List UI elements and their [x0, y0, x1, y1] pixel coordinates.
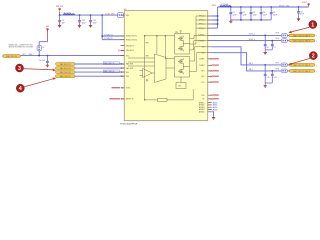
op-amp EA1 — [140, 69, 155, 78]
note text — [9, 43, 34, 48]
svg-text:AGND: AGND — [213, 108, 219, 111]
ground — [297, 18, 300, 21]
resistor RT internal — [145, 98, 194, 101]
pin names left — [126, 15, 137, 101]
transistor Q2 — [178, 45, 183, 51]
connector pad EN1 pill — [56, 63, 76, 66]
svg-text:SS2: SS2 — [126, 76, 129, 78]
svg-text:3: 3 — [18, 66, 21, 72]
inductor L2 — [220, 4, 231, 7]
connector pad FB2 pill — [289, 70, 315, 73]
svg-text:SS1: SS1 — [126, 72, 129, 74]
callout circle 4 — [16, 78, 56, 93]
internal ground ref — [146, 79, 148, 82]
capacitor C13 — [265, 71, 276, 83]
svg-text:J2: J2 — [42, 47, 44, 49]
svg-text:22uF: 22uF — [233, 14, 237, 16]
svg-text:22uF: 22uF — [273, 14, 277, 16]
svg-text:1 PVIN_V2: 1 PVIN_V2 — [104, 38, 112, 40]
connector pad EN2 pill — [56, 67, 76, 70]
svg-text:BP2: BP2 — [146, 55, 149, 57]
no-connect right BP2 — [211, 76, 219, 78]
svg-text:VOUT_1V0: VOUT_1V0 — [279, 5, 290, 7]
svg-text:1: 1 — [311, 23, 314, 29]
wire block1 internal — [183, 42, 189, 46]
svg-text:C13: C13 — [274, 77, 277, 79]
labels AGND cluster — [213, 101, 219, 111]
no-connect left SYNC — [112, 87, 124, 89]
node junctions FB rows — [264, 64, 273, 72]
power flag VOUT — [302, 2, 309, 7]
svg-text:VIN_HV: VIN_HV — [56, 6, 64, 8]
capacitor C1 — [229, 7, 236, 20]
svg-text:3: 3 — [316, 41, 317, 43]
svg-text:BP1: BP1 — [201, 71, 204, 73]
pin end dots — [121, 63, 122, 77]
ground — [212, 116, 215, 119]
svg-text:VOS_1: VOS_1 — [249, 33, 255, 35]
connector pad SS1 pill — [56, 71, 76, 74]
pin stubs left side — [121, 15, 125, 99]
svg-text:VOS_2: VOS_2 — [249, 39, 255, 41]
svg-text:5: 5 — [316, 71, 317, 73]
svg-text:VOUT: VOUT — [302, 2, 308, 4]
mux block — [155, 54, 167, 83]
connector pad VOUT1 pill — [289, 34, 315, 37]
capacitor C3 — [250, 7, 257, 20]
no-connect left RESET — [110, 98, 124, 100]
ground — [229, 20, 232, 23]
wire mux output — [166, 67, 175, 69]
node junctions riser — [217, 15, 219, 25]
ground — [89, 24, 92, 27]
svg-text:C6: C6 — [266, 47, 268, 49]
connector pad 3V3 pill — [3, 55, 21, 58]
capacitor C12 — [264, 65, 270, 83]
svg-text:4: 4 — [19, 86, 22, 92]
pin stubs right side — [208, 16, 212, 112]
svg-text:COMP2: COMP2 — [199, 65, 205, 67]
wire cap bottom bus — [231, 19, 271, 21]
svg-text:VOSNS1: VOSNS1 — [198, 35, 205, 37]
no-connect right BP1 — [211, 70, 219, 72]
wire EN1 row — [75, 63, 124, 65]
internal node dot — [144, 99, 145, 100]
capacitor C2 — [240, 7, 247, 20]
svg-text:NT3: NT3 — [276, 32, 279, 34]
wires SW pins to riser — [212, 7, 218, 28]
svg-text:NT4: NT4 — [276, 38, 279, 40]
svg-text:NT5: NT5 — [276, 62, 279, 64]
svg-text:REMOVE R26 WHEN EXT 3V3 USED: REMOVE R26 WHEN EXT 3V3 USED — [9, 47, 34, 49]
capacitor C11 — [89, 15, 98, 24]
pad index numbers — [316, 65, 317, 73]
connector pad SS2 pill — [56, 75, 76, 78]
capacitor C10 — [78, 15, 87, 24]
svg-text:PAD_EN1_R: PAD_EN1_R — [104, 62, 115, 65]
svg-text:22uF: 22uF — [243, 14, 247, 16]
node junction VIN rail — [59, 14, 103, 16]
ground — [264, 50, 267, 54]
svg-text:PAD_SS1_R: PAD_SS1_R — [104, 70, 114, 73]
svg-text:BP2: BP2 — [201, 76, 204, 78]
wire 3V3 rail — [21, 55, 125, 57]
internal bus lines — [144, 31, 182, 100]
connector pad FB1 pill — [289, 64, 315, 67]
node junction PVIN — [101, 35, 103, 37]
transistor Q4 — [178, 68, 183, 74]
power stage block 2 — [175, 57, 190, 78]
svg-text:NT6: NT6 — [276, 68, 279, 70]
internal node dots — [144, 35, 166, 36]
capacitor C6 — [264, 35, 269, 50]
capacitor C4 — [260, 7, 267, 20]
label PAD_SS1_R — [103, 70, 119, 73]
wire SS1 row — [75, 71, 124, 73]
net-tie NT3 — [276, 32, 288, 37]
wire FB2 bend — [212, 53, 289, 71]
wire FB1 bend — [212, 47, 289, 65]
ground — [58, 24, 61, 27]
net-tie NT2 on VIN wire — [118, 12, 124, 17]
svg-text:PG1: PG1 — [201, 82, 204, 84]
wire EN2 row — [75, 67, 124, 69]
node junctions on 3V3 rail — [38, 55, 48, 57]
ground — [78, 24, 81, 27]
pad index numbers — [316, 36, 317, 43]
capacitor C8 — [297, 7, 304, 18]
wire AGND to ground — [212, 112, 214, 117]
svg-text:2: 2 — [316, 36, 317, 38]
connector pad VOUT2 pill — [289, 39, 315, 42]
svg-text:RESET_B: RESET_B — [126, 99, 133, 101]
net-tie NT4 — [276, 38, 288, 42]
pin names right — [198, 15, 205, 114]
IC U1 body — [124, 11, 208, 122]
ground — [264, 83, 267, 87]
svg-text:C7: C7 — [274, 47, 276, 49]
inductor L3 — [63, 12, 75, 15]
svg-text:22uF: 22uF — [263, 14, 267, 16]
svg-text:PS1: PS1 — [175, 32, 178, 34]
svg-text:C12: C12 — [266, 77, 269, 79]
node junctions VOUT rail — [230, 6, 299, 8]
svg-text:BP1: BP1 — [146, 43, 149, 45]
no-connect right PG2 — [211, 94, 219, 96]
callout circle 1 — [288, 21, 317, 34]
power flag VIN_HV — [56, 6, 64, 15]
label PAD_EN1_R — [103, 62, 119, 65]
wire PVIN drop — [102, 15, 124, 40]
wire block1 outputs — [190, 16, 208, 50]
svg-text:1 PVIN_V1: 1 PVIN_V1 — [104, 34, 112, 36]
svg-text:FB_1: FB_1 — [249, 63, 254, 65]
no-connect left VIN_AUX2 — [118, 50, 124, 52]
power stage block 1 — [175, 32, 190, 54]
transistor Q3 — [178, 59, 183, 65]
net-tie NT5 — [276, 62, 288, 67]
no-connect right COMP1 — [211, 58, 219, 60]
callout circle 2 — [288, 52, 317, 65]
node junctions bottom bus — [240, 19, 262, 21]
svg-text:RT: RT — [202, 99, 204, 101]
node junctions VOS rows — [264, 35, 273, 42]
wires mux inputs — [128, 58, 155, 66]
wire VOS1 row — [212, 34, 289, 36]
wire block2 outputs — [190, 47, 208, 72]
capacitor C9 — [58, 15, 65, 24]
svg-text:2: 2 — [312, 54, 315, 60]
wire VIN rail — [60, 14, 125, 16]
no-connect right PG1 — [211, 81, 219, 83]
transistor Q1 — [178, 36, 183, 42]
svg-text:PG2: PG2 — [201, 95, 204, 97]
svg-text:FB_2: FB_2 — [249, 69, 254, 71]
svg-text:COMP1: COMP1 — [199, 59, 205, 61]
no-connect right RT — [211, 98, 219, 100]
net-tie NT6 — [276, 68, 288, 73]
capacitor C7 — [265, 41, 276, 50]
capacitor C24 — [39, 56, 49, 64]
svg-text:PVIN1_VOUT1: PVIN1_VOUT1 — [126, 36, 137, 38]
wire SS2 row — [75, 75, 124, 77]
svg-text:PVIN2_VOUT2: PVIN2_VOUT2 — [126, 39, 137, 41]
wire block2 internal — [183, 65, 189, 69]
svg-text:47uF: 47uF — [300, 14, 304, 16]
callout circle 3 — [16, 64, 57, 72]
svg-text:4: 4 — [316, 65, 317, 67]
svg-text:C24 1uF: C24 1uF — [39, 60, 45, 62]
thermal block — [176, 77, 193, 100]
svg-text:VIN_HV: VIN_HV — [105, 13, 115, 15]
wire VOUT rail — [218, 6, 309, 8]
svg-text:SW1: SW1 — [212, 5, 216, 7]
jumper J2 — [37, 42, 48, 56]
no-connect right COMP2 — [211, 64, 219, 66]
svg-text:22uF: 22uF — [253, 14, 257, 16]
svg-text:TPS54J061RPSR: TPS54J061RPSR — [120, 123, 138, 125]
wire VOS2 row — [212, 40, 289, 42]
power flag 3V3 — [46, 26, 49, 42]
ground — [46, 64, 49, 67]
svg-text:3V3: 3V3 — [46, 26, 49, 28]
capacitor C5 — [270, 7, 277, 20]
